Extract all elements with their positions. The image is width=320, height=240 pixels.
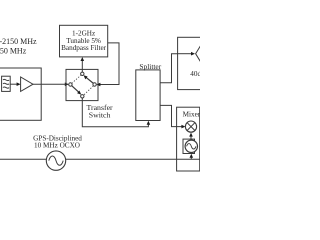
10 MHz reference line left	[0, 158, 47, 160]
splitter box	[136, 70, 160, 121]
switch node left	[69, 83, 72, 86]
wire into amp triangle	[178, 53, 194, 55]
svg-text:Bandpass Filter: Bandpass Filter	[61, 44, 107, 52]
label: Mixer	[183, 111, 201, 119]
switch solid path left-to-bottom	[72, 86, 81, 94]
svg-text:40dB: 40dB	[190, 70, 200, 78]
switch dashed path right-to-bottom	[84, 86, 94, 95]
bandpass filter symbol F1	[2, 76, 11, 91]
wire LO to mixer	[190, 136, 192, 139]
label: GPS-Disciplined 10 MHz OCXO	[33, 135, 82, 150]
svg-text:Mixer: Mixer	[183, 111, 200, 119]
wire amp to switch	[33, 83, 67, 85]
wire filter output wrap to switch right port	[98, 43, 119, 85]
svg-text:Splitter: Splitter	[139, 62, 161, 71]
front-end enclosure box	[0, 68, 41, 120]
amplifier A1	[21, 77, 33, 91]
svg-text:Switch: Switch	[89, 111, 111, 120]
switch node top	[81, 72, 84, 75]
svg-text:50 MHz: 50 MHz	[0, 46, 27, 55]
switch node right	[93, 83, 96, 86]
transfer switch box S1	[66, 69, 98, 100]
switch node bottom	[81, 95, 84, 98]
wire switch bottom to splitter input	[82, 98, 148, 127]
svg-text:10 MHz OCXO: 10 MHz OCXO	[34, 142, 80, 150]
node label: 950-2150 MHz text	[0, 37, 37, 56]
wire 10MHz to LO	[190, 156, 192, 159]
amplifier box (40dB)	[178, 37, 206, 89]
label: Transfer Switch	[87, 103, 114, 120]
10 MHz reference line right	[66, 158, 200, 160]
OCXO oscillator symbol	[46, 151, 65, 170]
tunable bandpass filter box F2	[60, 25, 108, 57]
wire splitter out2 to mixer	[160, 105, 184, 126]
svg-text:0-2150 MHz: 0-2150 MHz	[0, 37, 37, 46]
wire splitter out1 to amp box	[160, 54, 178, 83]
label: Splitter	[139, 62, 161, 71]
switch dashed path left-to-top	[72, 75, 81, 83]
label: 40dB	[190, 70, 206, 78]
switch solid path right-to-top	[85, 76, 94, 83]
mixer box	[177, 107, 200, 171]
wire filter to amp	[10, 83, 19, 85]
mixer symbol (circle with X)	[185, 121, 196, 132]
amp triangle (tip left, cut off)	[196, 46, 201, 62]
local oscillator U1 (square with sine circle)	[183, 139, 195, 153]
wire switch top to filter input	[81, 59, 83, 73]
